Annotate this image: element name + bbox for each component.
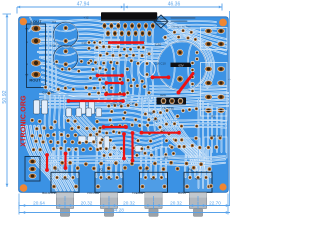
wire red bottom horizontal left [104, 126, 127, 128]
IC U1 pin pads row 2 [106, 30, 111, 36]
potentiometer P1 pads [55, 175, 59, 179]
potentiometer P4 pads [188, 175, 192, 179]
svg-text:Design by Tao: Design by Tao [172, 25, 191, 29]
wire diagonal fan bottom-center [64, 116, 110, 162]
potentiometer P1 body below board [56, 193, 73, 209]
mounting hole bottom-left [20, 184, 28, 192]
mounting hole top-left [20, 18, 27, 25]
wire river mid horizontal [40, 93, 228, 96]
wire bundle left-mid fan [42, 58, 104, 67]
svg-text:+: + [25, 27, 29, 33]
svg-text:C20: C20 [155, 43, 162, 47]
wire red pair upper b [107, 82, 123, 84]
wire red short horizontal above [106, 93, 124, 95]
wire weave center horizontals [96, 108, 166, 111]
svg-text:20.32: 20.32 [123, 200, 135, 205]
pad cluster center upper [87, 46, 91, 50]
wire bundle right of connector verticals [54, 132, 57, 160]
svg-text:R5: R5 [164, 156, 168, 160]
svg-text:TREBLE: TREBLE [132, 191, 143, 195]
svg-text:C5: C5 [52, 44, 56, 48]
wire bundle left edge verticals [47, 26, 50, 90]
potentiometer P1 silk outline [51, 172, 79, 192]
logo text lines [171, 17, 196, 19]
wire fan from IC pins [103, 27, 106, 44]
pad cluster center-bottom [107, 104, 111, 108]
capacitor C21 polarity bar [171, 63, 192, 67]
potentiometer P3 pads [143, 175, 147, 179]
svg-text:50K: 50K [195, 177, 200, 181]
wire red vertical 2 [131, 133, 133, 161]
pad staggered rows above pots [53, 166, 58, 171]
wire connecting IC to right [158, 24, 180, 46]
wire red bottom horizontal right [142, 132, 180, 134]
potentiometer P4 body below board [189, 193, 206, 209]
wire red mid-left horizontal [69, 100, 124, 102]
wire bundle connector stubs [38, 27, 52, 29]
svg-text:20.32: 20.32 [81, 200, 93, 205]
wire red vertical short left a [46, 155, 48, 170]
IC U1 pin pads row 1 [102, 23, 107, 29]
dimension extension right edge [229, 11, 231, 205]
potentiometer P3 shaft [149, 209, 158, 217]
resistor column right silk rect lower [201, 63, 228, 117]
svg-text:-: - [26, 61, 28, 68]
svg-text:C10: C10 [82, 41, 87, 45]
svg-text:C16 C10: C16 C10 [154, 62, 166, 66]
svg-text:34.28: 34.28 [112, 207, 124, 212]
potentiometer P2 silk outline [95, 172, 123, 192]
resistor silk box right upper small [201, 111, 227, 121]
svg-text:BASS: BASS [178, 191, 186, 195]
connector J2 bottom-left silk [25, 157, 40, 182]
potentiometer P2 pads [99, 175, 103, 179]
svg-text:C19 C18: C19 C18 [110, 102, 121, 106]
svg-text:C17: C17 [129, 102, 135, 106]
dimension bottom row 1 [19, 205, 230, 207]
pad row right-bottom [174, 138, 178, 142]
connector J1 silk outline LOUT/ROUT [27, 24, 46, 88]
dimension extension ticks bottom [18, 194, 20, 215]
capacitor C21 pads [177, 49, 184, 56]
svg-text:U2A: U2A [160, 93, 166, 97]
capacitor C4 C5 interiors [54, 23, 78, 47]
svg-text:+: + [25, 73, 29, 79]
svg-text:VOLUME: VOLUME [87, 191, 99, 195]
pad cluster left bottom [30, 118, 34, 122]
potentiometer P3 body below board [145, 193, 162, 209]
potentiometer P2 shaft [104, 209, 113, 217]
potentiometer P2 body below board [100, 193, 117, 209]
wire arcs around capacitor C21 [167, 41, 206, 83]
capacitor C21 large silk circle [158, 42, 207, 91]
potentiometer P1 shaft [60, 209, 69, 217]
svg-text:22.70: 22.70 [209, 200, 221, 205]
pad near bottom-right hole [209, 184, 213, 188]
svg-text:50.92: 50.92 [2, 90, 8, 103]
wire red right horizontal [153, 76, 169, 78]
svg-text:P4: P4 [188, 168, 192, 172]
svg-text:-: - [26, 39, 28, 46]
wire red vertical 1 [123, 134, 125, 159]
svg-text:20.64: 20.64 [33, 200, 45, 205]
svg-text:C25, C23: C25, C23 [210, 134, 222, 138]
resistor group R-left vertical silk bodies [34, 100, 40, 114]
wire bundle top-right diagonals [159, 19, 226, 39]
wire vertical bundle right edge [198, 100, 200, 188]
svg-text:100K: 100K [106, 177, 113, 181]
resistor column right silk rect upper [201, 28, 228, 50]
svg-text:P3: P3 [144, 168, 148, 172]
wire bundle top-left horizontal [40, 20, 119, 22]
pad cluster center mid [98, 78, 102, 82]
svg-text:R11: R11 [154, 119, 159, 123]
svg-text:47.94: 47.94 [77, 1, 90, 7]
potentiometer P4 shaft [193, 209, 202, 217]
wire red diagonal to C21 [179, 74, 194, 93]
PCB board outline [19, 17, 229, 193]
transistor block U2 black body [157, 98, 187, 105]
capacitor C5 silk circle [53, 46, 78, 71]
capacitor C21 interior [158, 42, 205, 89]
svg-text:P1: P1 [55, 168, 59, 172]
resistor silk boxes right-bottom rows [162, 138, 200, 147]
wire bundle mid-right horizontals [165, 120, 226, 121]
svg-text:LOUT: LOUT [31, 19, 42, 24]
svg-text:P2: P2 [99, 168, 103, 172]
potentiometer P4 silk outline [184, 172, 212, 192]
pad sparse top-middle-left [55, 60, 59, 64]
pads right inner column [195, 51, 199, 55]
dimension line left 50.92 [6, 14, 8, 187]
capacitor silk rects center-bottom [78, 136, 86, 142]
wire red pair upper a [98, 74, 123, 76]
wire red vertical short left b [64, 154, 66, 169]
capacitor C4 silk circle [53, 22, 78, 47]
wire center-bottom S curves [96, 130, 162, 134]
svg-text:20.32: 20.32 [170, 200, 182, 205]
wire river upper-mid horizontal [150, 86, 226, 87]
wire horizontals above pots [45, 156, 225, 159]
svg-text:BALANCE: BALANCE [42, 191, 56, 195]
wire weave center verticals [141, 98, 144, 130]
IC U1 black package body [101, 12, 157, 19]
dimension bottom row 2 [19, 212, 230, 214]
capacitor C10 small component [87, 41, 91, 45]
svg-text:46.36: 46.36 [168, 1, 181, 7]
svg-text:63V: 63V [178, 63, 183, 67]
wire red under IC [108, 41, 144, 44]
svg-text:XTRONIC.ORG: XTRONIC.ORG [21, 95, 28, 147]
mounting hole bottom-right [219, 183, 226, 190]
wire left mid verticals [44, 96, 47, 128]
resistor pads right column [205, 28, 213, 34]
svg-text:C4: C4 [52, 20, 56, 24]
svg-text:R11: R11 [149, 111, 154, 115]
connector J1 pads [31, 25, 41, 32]
pad cluster right-bottom rows [165, 108, 169, 112]
capacitor pads C4 C5 [63, 25, 68, 30]
potentiometer P3 silk outline [140, 172, 168, 192]
pad row near logo [172, 30, 176, 34]
logo diamond mark [154, 15, 168, 28]
svg-text:100K: 100K [62, 177, 69, 181]
svg-text:ROUT: ROUT [29, 78, 41, 83]
svg-text:50K: 50K [151, 177, 156, 181]
svg-text:+12: +12 [83, 15, 88, 19]
pad cluster left mid rows [44, 85, 48, 89]
wire top edge horizontals right [168, 21, 216, 22]
dimension line top 46.36 [124, 6, 222, 8]
wire bundle under IC [95, 43, 167, 45]
wire bundle center verticals [98, 48, 100, 103]
dimension line top 47.94 [17, 6, 124, 8]
mounting hole top-right [219, 19, 227, 27]
wire small arcs around mounting hole TL [29, 18, 32, 32]
wire diagonal bundle bottom-right [146, 110, 194, 170]
wire columns to potentiometers [51, 148, 54, 177]
wire river bottom-left curves [23, 126, 57, 190]
svg-text:R1: R1 [211, 115, 215, 119]
capacitor C12 silk circle [139, 61, 155, 77]
pad cluster bottom mid columns [98, 130, 102, 134]
svg-text:C14/C13: C14/C13 [42, 91, 54, 95]
